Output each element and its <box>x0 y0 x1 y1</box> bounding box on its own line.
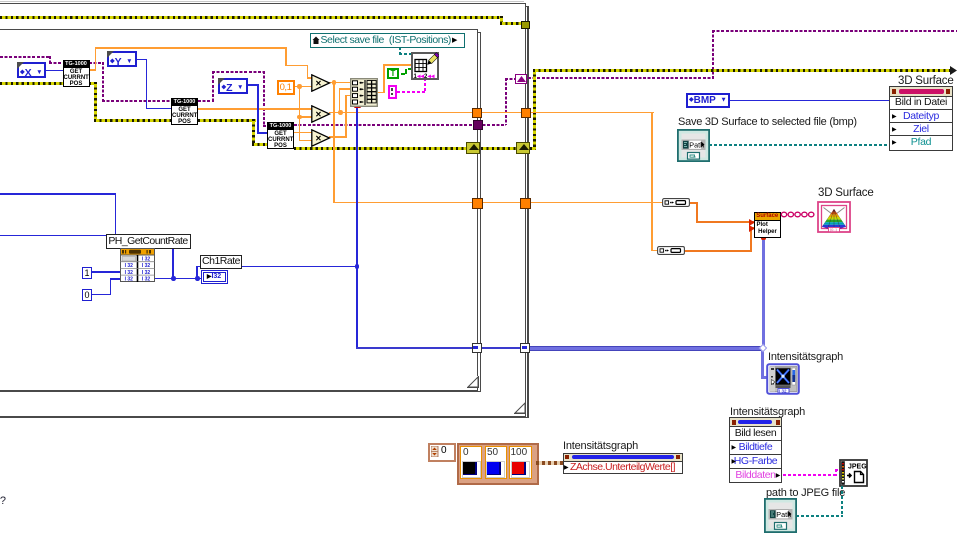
enum constant X <box>17 62 46 78</box>
label Intensitaetsgraph (property) <box>563 441 638 452</box>
wire: mult1 out to build array + down to tunnels <box>329 82 351 84</box>
node TG-1000 #2 <box>171 98 198 125</box>
wire: 0,1 constant to multiplies <box>292 86 312 88</box>
wire: TG3 error out to tunnels and right side <box>294 147 468 150</box>
wire: cluster brown dotted to property node <box>536 461 563 465</box>
wire: surface helper down (blue violet) <box>762 238 766 348</box>
svg-text:×: × <box>315 133 321 144</box>
wire: TG2 position out (orange) to mult2 <box>198 108 312 110</box>
svg-text:I 32: I 32 <box>141 257 150 263</box>
wire: semicolon string to write node <box>397 91 426 93</box>
wire: refnum chain to 3D surface indicator <box>780 211 818 218</box>
inner frame corner fold <box>467 376 479 388</box>
red coercion dot on build array input <box>354 103 361 108</box>
control path #1 <box>677 129 710 162</box>
enum constant BMP <box>686 93 730 108</box>
svg-text:◀◀: ◀◀ <box>427 73 435 78</box>
wire: mult3 out up to build array in3 <box>329 136 347 138</box>
wire: PH node inputs from left edge <box>0 193 116 195</box>
wire: const 1 to PH node <box>92 271 120 273</box>
tunnel olive triangle pair (error) <box>466 142 480 154</box>
cluster element 0 <box>460 446 482 479</box>
tunnel orange pair lower <box>472 198 483 209</box>
wire: conv1 out to surface helper <box>690 202 698 204</box>
label 3D Surface (invoke) <box>898 76 954 87</box>
label PH_GetCountRate <box>106 234 191 249</box>
wire: path control to Pfad (teal) <box>709 144 890 146</box>
tunnel (error, outer frame top) <box>521 21 530 30</box>
invoke node 3D Surface: Bild in Datei <box>889 86 953 151</box>
wire: orange right side to conversions <box>530 112 654 114</box>
wire: TG3 VISA out to tunnel chain <box>294 124 506 126</box>
wire: count rate blue vertical (x=357) <box>356 106 358 348</box>
wire: VISA purple into TG1 <box>0 56 51 58</box>
wire: boolean T dashes to write node <box>401 73 405 75</box>
node Surface Plot Helper <box>754 212 781 239</box>
label Ch1Rate <box>200 255 242 269</box>
outer sequence structure frame (two stacked outlines) <box>0 1 524 2</box>
label path to JPEG file <box>766 488 845 499</box>
svg-text:I 32: I 32 <box>141 270 150 276</box>
constant 0,1 <box>277 80 295 96</box>
svg-text:×: × <box>315 78 321 89</box>
wire: Z value blue <box>248 84 259 86</box>
node write JPEG file <box>839 459 868 487</box>
tunnel orange pair upper <box>472 108 482 118</box>
wire: save-file label teal to write node <box>399 47 401 55</box>
node PH_GetCountRate (call library) <box>120 248 155 282</box>
wire: const 0 to PH node <box>92 294 111 296</box>
wire: path2 to JPEG (teal) <box>796 515 843 517</box>
string constant semicolon <box>388 85 397 99</box>
tunnel purple filled <box>473 120 483 130</box>
svg-text:I 32: I 32 <box>779 389 787 394</box>
red coercion arrows on surface helper inputs <box>749 219 755 226</box>
wire: TG1 VISA out to TG2 <box>89 62 104 64</box>
wire: TG2 error out to TG3 <box>198 119 256 122</box>
conversion node 1 <box>662 198 690 207</box>
indicator Ch1Rate I32 <box>201 270 228 284</box>
svg-text:I 32: I 32 <box>124 270 133 276</box>
wire: X value blue <box>46 70 63 72</box>
svg-text:I 32: I 32 <box>141 277 150 282</box>
wire: mult2 out up to build array in2 and right through tunnels <box>329 112 474 114</box>
wire: error cluster into TG1 <box>0 82 64 85</box>
wire: TG1 position out (orange) to mult1 <box>89 69 96 71</box>
multiply function 2 <box>311 105 331 123</box>
enum constant Z <box>218 78 248 94</box>
wire: BMP to invoke node <box>730 100 890 102</box>
invoke node Intensitaetsgraph <box>729 417 782 483</box>
wire: TG3 position out to mult3 <box>294 132 312 134</box>
inner sequence structure frame (two stacked outlines) <box>0 29 478 391</box>
svg-text:JPEG: JPEG <box>848 463 867 470</box>
build array node <box>350 78 378 107</box>
wire: Y value blue <box>136 59 147 61</box>
svg-text:×: × <box>315 109 321 120</box>
wire: Ch1Rate blue routing <box>154 278 201 280</box>
conversion node 2 <box>657 246 685 255</box>
label Intensitaetsgraph (invoke) <box>730 407 805 418</box>
outer frame corner fold <box>514 402 526 414</box>
control path #2 <box>764 498 797 533</box>
constant 1 <box>82 267 92 279</box>
text question mark <box>0 496 6 507</box>
wire: TG2 VISA out to TG3 <box>198 100 214 102</box>
control array index spinner <box>428 443 456 462</box>
node TG-1000 #1 GET CURRNT POS <box>63 60 90 87</box>
node TG-1000 #3 <box>267 122 294 149</box>
constant 0 <box>82 289 92 301</box>
junction diamond <box>759 344 767 352</box>
indicator intensity graph <box>766 363 800 395</box>
wire: 2D data blue thick to intensity graph <box>356 347 476 349</box>
label Save 3D Surface <box>678 117 857 128</box>
cluster element 100 <box>509 446 532 479</box>
cluster element 50 <box>485 446 507 479</box>
wire: TG1 error out to TG2 <box>89 82 97 85</box>
boolean constant T <box>387 68 399 79</box>
wire: Bilddaten pink to JPEG node <box>783 474 837 476</box>
label 3D Surface (indicator) <box>818 188 874 199</box>
svg-text:[0..]: [0..] <box>830 227 837 232</box>
tunnel purple triangle (outer edge) <box>515 74 527 84</box>
multiply function 1 <box>311 74 331 92</box>
indicator 3D Surface (graph) <box>817 201 851 233</box>
error wire end arrow at right edge <box>950 66 957 75</box>
wire: build array out to Write node <box>377 92 385 94</box>
enum constant Y <box>107 51 137 67</box>
multiply function 3 <box>311 129 331 147</box>
wire: conv2 out to surface helper <box>684 250 752 252</box>
node Write To Spreadsheet File <box>411 52 439 80</box>
svg-text:I 32: I 32 <box>141 263 150 269</box>
wire: error cluster along top <box>0 16 502 19</box>
svg-text:I 32: I 32 <box>124 263 133 269</box>
tunnel white pair (2D array) <box>472 343 482 353</box>
label Select save file <box>310 33 465 48</box>
label Intensitaetsgraph (indicator) <box>768 352 843 363</box>
svg-text:I 32: I 32 <box>124 277 133 282</box>
property node ZAchse.UnterteilgWerte[] <box>563 453 683 475</box>
cluster color scale constant <box>457 443 539 485</box>
